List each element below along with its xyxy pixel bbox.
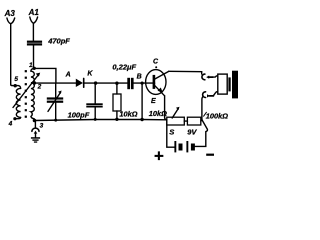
earphone bottom socket — [203, 92, 206, 98]
svg-text:3: 3 — [40, 123, 44, 130]
svg-text:10kΩ: 10kΩ — [149, 109, 167, 118]
svg-text:S: S — [169, 128, 174, 137]
wire down to capacitor 100pF — [94, 83, 96, 103]
battery B 9V — [174, 141, 195, 152]
wire A1 to capacitor — [32, 23, 34, 40]
potentiometer R3 body — [167, 117, 185, 125]
node base bias junction — [141, 82, 144, 85]
switch S blade — [202, 120, 207, 131]
variable capacitor C1 — [55, 83, 57, 97]
variometer arrow across windings — [13, 75, 39, 108]
svg-text:A: A — [65, 72, 71, 79]
earphone body — [218, 74, 227, 94]
svg-text:1: 1 — [29, 62, 33, 69]
transistor collector lead — [155, 71, 169, 79]
wire capacitor 100pF to bus — [94, 108, 96, 120]
node K junction — [94, 81, 97, 84]
wire left winding to terminal 4 — [15, 117, 21, 118]
transistor base bar — [153, 75, 156, 89]
earphone top plug — [206, 76, 209, 79]
antenna jack A1 — [30, 17, 38, 23]
bus wire bottom — [35, 120, 167, 121]
node bus base wire — [140, 118, 143, 121]
svg-text:B: B — [137, 73, 142, 80]
svg-text:5: 5 — [14, 76, 18, 83]
potentiometer arrow — [172, 109, 178, 119]
svg-text:+: + — [154, 147, 164, 163]
antenna jack A3 — [7, 18, 15, 24]
wire switch to battery — [195, 132, 206, 147]
transformer core (dashed) — [25, 70, 27, 118]
ink dot above transistor — [155, 66, 157, 68]
wire battery left — [167, 120, 175, 147]
wire terminal 1 jog to tuned node — [34, 68, 56, 83]
wire tap2 row — [32, 82, 76, 84]
capacitor 0.22uF — [127, 78, 133, 89]
node tap 2 — [33, 81, 36, 84]
capacitor 100pF — [86, 103, 102, 107]
wire collector top — [169, 71, 202, 74]
transistor emitter lead with arrow — [154, 85, 164, 96]
svg-text:4: 4 — [8, 120, 13, 127]
svg-text:K: K — [87, 71, 93, 78]
svg-text:2: 2 — [37, 84, 42, 91]
node terminal 4 — [13, 117, 16, 120]
node terminal 1 — [33, 67, 36, 70]
svg-text:E: E — [151, 98, 156, 105]
ground jack socket arc — [32, 128, 39, 131]
earphone bottom plug — [213, 92, 218, 96]
wire capacitor to coil terminal 1 — [33, 46, 35, 68]
svg-text:9V: 9V — [187, 127, 197, 136]
wire R4 to node — [201, 120, 202, 121]
wire diode to cap row — [84, 82, 128, 84]
node resistor R1 top — [115, 82, 118, 85]
node terminal 3 — [33, 119, 37, 123]
transformer L right winding — [31, 68, 35, 120]
earphone top socket — [202, 74, 205, 80]
wire emitter down — [165, 96, 167, 120]
resistor R1 10k — [113, 94, 121, 111]
node bus R1 — [115, 118, 118, 121]
svg-text:470pF: 470pF — [47, 37, 70, 46]
svg-text:10kΩ: 10kΩ — [119, 109, 137, 118]
ground symbol — [31, 137, 40, 143]
transistor T circle — [146, 70, 166, 95]
label minus — [206, 154, 214, 156]
node terminal 5 — [14, 84, 17, 87]
wire resistor R1 to bus — [116, 111, 118, 119]
svg-text:0,22μF: 0,22μF — [112, 63, 136, 72]
label 100k with leader — [204, 112, 207, 116]
svg-text:100kΩ: 100kΩ — [206, 111, 228, 120]
svg-text:C: C — [153, 59, 159, 66]
diode D — [76, 79, 83, 87]
wire earphone return down — [201, 97, 204, 120]
ground jack stem — [34, 121, 36, 128]
transformer L left winding — [16, 88, 20, 117]
variable capacitor arrow — [48, 92, 61, 111]
wire cap to base — [134, 82, 155, 84]
wire A3 down — [11, 24, 12, 86]
wire base junction down to bus — [141, 83, 143, 119]
svg-text:100pF: 100pF — [68, 110, 90, 119]
capacitor C 470pF — [27, 41, 42, 46]
node bus 100pF — [94, 118, 97, 121]
wire terminal 5 to left winding — [12, 86, 21, 89]
wire to resistor R1 — [116, 83, 118, 94]
svg-text:A1: A1 — [28, 8, 40, 17]
svg-text:A3: A3 — [4, 9, 16, 18]
ground plug arrow — [34, 131, 38, 134]
resistor R4 100k — [187, 117, 200, 125]
wire pot to R4 — [184, 120, 187, 122]
node bus var-cap — [54, 119, 57, 122]
